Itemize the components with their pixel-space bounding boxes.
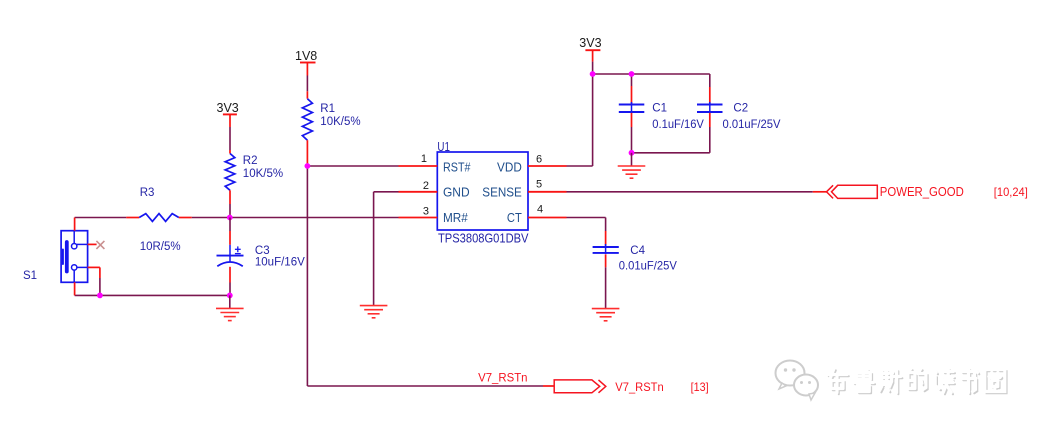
node R2/R3/C3 junction (227, 215, 233, 221)
ground (U1 GND) (360, 306, 388, 318)
svg-text:POWER_GOOD: POWER_GOOD (880, 185, 964, 199)
svg-text:3: 3 (423, 206, 429, 218)
wire (229, 204, 231, 218)
pin name CT (507, 210, 522, 225)
capacitor C3 (polarized) (217, 218, 306, 283)
svg-text:C3: C3 (255, 245, 270, 257)
wire (229, 127, 231, 150)
wire bottom rail (75, 294, 230, 296)
svg-text:0.01uF/25V: 0.01uF/25V (619, 259, 677, 273)
power 3V3 (top) (579, 36, 601, 62)
resistor R2 (225, 150, 283, 204)
S1 bottom-right pin (88, 267, 100, 278)
wire S1 elbow down (99, 278, 101, 295)
svg-text:CT: CT (507, 210, 522, 225)
svg-text:2: 2 (423, 180, 429, 192)
wire (592, 62, 594, 74)
pin name GND (443, 185, 470, 200)
svg-text:U1: U1 (437, 140, 450, 154)
svg-text:VDD: VDD (497, 159, 522, 174)
svg-text:V7_RSTn: V7_RSTn (615, 382, 663, 394)
wire RST# net: junction to pin 1 (307, 165, 398, 167)
svg-text:S1: S1 (23, 270, 37, 282)
power 1V8 (295, 49, 317, 76)
svg-text:10R/5%: 10R/5% (140, 241, 181, 253)
pin name MR# (443, 210, 468, 225)
port V7_RSTn (554, 380, 664, 394)
pin name RST# (443, 159, 471, 174)
wire 3V3 top rail (593, 73, 710, 75)
node 3V3 junction (590, 71, 596, 77)
svg-text:1V8: 1V8 (295, 49, 317, 63)
watermark wechat icon (776, 361, 819, 401)
svg-text:3V3: 3V3 (217, 101, 239, 115)
wire R3 left to S1 (75, 217, 127, 219)
svg-text:[10,24]: [10,24] (994, 185, 1028, 199)
svg-text:3V3: 3V3 (579, 36, 601, 50)
svg-text:MR#: MR# (443, 210, 468, 225)
pin 2 (399, 180, 438, 192)
wire C2 bottom (632, 127, 710, 153)
S1 top-right pin (88, 243, 97, 245)
no-connect X (96, 241, 104, 249)
capacitor C4 (593, 231, 677, 273)
pin 1 (399, 153, 438, 166)
resistor R3 (126, 187, 192, 253)
pin name VDD (497, 159, 522, 174)
wire 3V3 down to VDD (567, 74, 593, 166)
wire R3 right to junction (192, 217, 230, 219)
svg-text:GND: GND (443, 185, 470, 200)
node C1 bottom junction (629, 150, 635, 156)
svg-text:R1: R1 (320, 103, 335, 115)
svg-text:6: 6 (536, 154, 542, 166)
port POWER_GOOD (827, 185, 964, 199)
text [10,24] (994, 185, 1028, 199)
svg-text:10uF/16V: 10uF/16V (255, 257, 305, 269)
wire C1 bottom (631, 127, 633, 153)
pin name SENSE (482, 185, 522, 200)
node C3/ground junction (227, 293, 233, 299)
svg-text:1: 1 (421, 153, 427, 165)
net label V7_RSTn (478, 370, 527, 384)
svg-text:5: 5 (536, 179, 542, 191)
wire V7_RSTn horizontal (307, 385, 554, 387)
op-amp U1 TPS3808G01DBV body (437, 140, 528, 246)
svg-text:0.1uF/16V: 0.1uF/16V (652, 117, 704, 131)
ground (C1/C2) (618, 166, 646, 178)
capacitor C2 (697, 74, 781, 131)
node S1/bottom rail junction (97, 293, 103, 299)
ground (C3) (216, 308, 244, 320)
svg-text:0.01uF/25V: 0.01uF/25V (723, 117, 781, 131)
S1 bottom-left pin (74, 282, 76, 295)
svg-text:10K/5%: 10K/5% (243, 168, 283, 180)
svg-text:R3: R3 (140, 187, 155, 199)
resistor R1 (302, 91, 360, 166)
svg-text:[13]: [13] (691, 380, 709, 394)
pin 3 (399, 206, 438, 218)
svg-text:TPS3808G01DBV: TPS3808G01DBV (438, 231, 529, 246)
svg-text:V7_RSTn: V7_RSTn (478, 370, 527, 384)
svg-text:R2: R2 (243, 155, 258, 167)
wire junction to ground (631, 153, 633, 166)
wire V7_RSTn trunk down (306, 166, 308, 386)
S1 pin to R3 wire (74, 218, 76, 231)
capacitor C1 (619, 74, 704, 131)
pin 6 (528, 154, 567, 166)
svg-text:RST#: RST# (443, 159, 471, 174)
ground (C4) (592, 309, 620, 321)
svg-text:4: 4 (537, 204, 543, 216)
wire GND net (374, 192, 399, 305)
svg-text:10K/5%: 10K/5% (320, 116, 360, 128)
wire junction to ground (229, 295, 231, 308)
power 3V3 (above R2) (217, 101, 239, 127)
wire C4 to ground (605, 267, 607, 308)
watermark text (827, 369, 1007, 395)
wire MR# net (230, 217, 399, 219)
pin 5 (528, 179, 567, 192)
node RST junction (305, 163, 311, 169)
wire SENSE to port (567, 191, 827, 193)
text [13] (691, 380, 709, 394)
pin 4 (528, 204, 567, 218)
node C1 top junction (629, 71, 635, 77)
switch S1 (23, 231, 88, 283)
wire C3 to bottom junction (229, 283, 231, 296)
svg-text:C2: C2 (733, 103, 748, 115)
svg-text:C1: C1 (652, 102, 667, 114)
wire (306, 76, 308, 92)
svg-text:C4: C4 (630, 245, 645, 257)
wire CT to C4 (567, 218, 606, 232)
svg-text:SENSE: SENSE (482, 185, 522, 200)
